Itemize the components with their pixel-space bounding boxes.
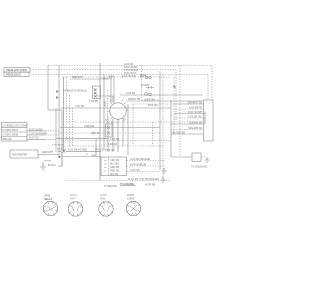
svg-text:B OF 3M WH: B OF 3M WH (188, 111, 202, 114)
svg-text:B OF 3M RD: B OF 3M RD (29, 128, 43, 131)
svg-text:4 OF 3M: 4 OF 3M (108, 143, 117, 146)
svg-text:W OF 3M Y OF 3M ORANGE: W OF 3M Y OF 3M ORANGE (128, 178, 159, 181)
svg-text:3L: 3L (86, 154, 89, 156)
svg-text:TO ENGINE: TO ENGINE (120, 182, 134, 186)
svg-text:LT HEADLIGHT CONN: LT HEADLIGHT CONN (3, 125, 27, 128)
svg-text:RD/WH 3M: RD/WH 3M (128, 98, 140, 101)
svg-text:CONN: CONN (127, 197, 134, 200)
svg-text:C OF 3M RD/WH: C OF 3M RD/WH (29, 132, 47, 135)
svg-text:HEADLIGHTS: HEADLIGHTS (6, 74, 21, 77)
svg-text:23 GA: 23 GA (55, 150, 61, 153)
svg-text:HOURMETER: HOURMETER (12, 154, 28, 157)
svg-text:TO ENGINE: TO ENGINE (104, 185, 117, 188)
svg-text:G: G (123, 119, 125, 122)
svg-text:TO SOLENOID: TO SOLENOID (191, 165, 207, 168)
svg-text:RED: RED (92, 155, 97, 157)
svg-text:BRN 3M: BRN 3M (3, 138, 12, 141)
svg-text:RED/WHT: RED/WHT (72, 76, 84, 79)
svg-text:A OF 3M I=O RED: A OF 3M I=O RED (68, 149, 87, 152)
svg-text:D OF 3M: D OF 3M (29, 137, 38, 140)
svg-text:HEADLIGHT CONN: HEADLIGHT CONN (6, 69, 27, 72)
svg-text:15 AMP: 15 AMP (141, 84, 150, 87)
svg-text:4 OF 3M: 4 OF 3M (110, 138, 119, 141)
svg-text:B: B (110, 100, 112, 103)
svg-text:LT GRN 3M A1: LT GRN 3M A1 (3, 129, 19, 132)
svg-text:BLACK: BLACK (48, 164, 56, 167)
svg-text:A OF 3M ORANGE: A OF 3M ORANGE (130, 158, 150, 161)
svg-text:A1: A1 (104, 105, 108, 108)
svg-text:GRN/WHT 3M: GRN/WHT 3M (187, 101, 202, 104)
svg-text:RED 3M: RED 3M (91, 132, 100, 135)
svg-text:RED/WHT: RED/WHT (103, 78, 113, 80)
svg-text:4 OF 3M: 4 OF 3M (89, 100, 98, 103)
svg-text:E OF 3M OR: E OF 3M OR (122, 75, 136, 78)
svg-text:RED/WHT: RED/WHT (42, 151, 54, 154)
svg-text:A: A (122, 100, 124, 103)
svg-text:ENGINE 3M: ENGINE 3M (204, 112, 207, 124)
svg-text:SPLICE: SPLICE (95, 149, 104, 152)
svg-text:RD/WH: RD/WH (44, 160, 51, 162)
svg-text:C OF 3M YEL: C OF 3M YEL (188, 115, 203, 118)
svg-text:AT B: AT B (100, 197, 105, 200)
svg-text:M: M (111, 122, 113, 125)
svg-text:ORG/WH 3M: ORG/WH 3M (188, 127, 202, 130)
svg-text:BLK 3M: BLK 3M (110, 173, 118, 176)
svg-text:B OF 3M: B OF 3M (145, 99, 154, 102)
svg-text:INTERLOCK MODULE: INTERLOCK MODULE (63, 90, 88, 93)
svg-text:B OF 3M BLUE: B OF 3M BLUE (130, 163, 146, 166)
svg-text:4 OF 3M: 4 OF 3M (75, 105, 84, 108)
svg-text:YEL/WH 3M: YEL/WH 3M (171, 131, 185, 134)
svg-text:A OF 3M: A OF 3M (126, 92, 135, 95)
svg-text:B OF 3M OR: B OF 3M OR (52, 144, 64, 146)
svg-text:B OF 3M: B OF 3M (148, 104, 157, 107)
svg-text:W OF 3M: W OF 3M (145, 184, 155, 187)
svg-text:AT A: AT A (70, 197, 75, 200)
svg-text:SPLICE: SPLICE (55, 149, 63, 151)
svg-text:S: S (105, 119, 107, 122)
svg-text:C OF 3M: C OF 3M (130, 169, 139, 172)
svg-text:B OF 3M: B OF 3M (105, 149, 114, 152)
svg-text:FUSE: FUSE (140, 74, 147, 77)
svg-text:BLK/WH 3M: BLK/WH 3M (189, 121, 202, 124)
svg-text:ORANGE: ORANGE (84, 125, 95, 128)
svg-text:A OF 3M RD: A OF 3M RD (189, 106, 202, 109)
svg-text:SEAL A: SEAL A (44, 198, 52, 201)
svg-text:LT ORG 3M B1: LT ORG 3M B1 (3, 134, 20, 137)
